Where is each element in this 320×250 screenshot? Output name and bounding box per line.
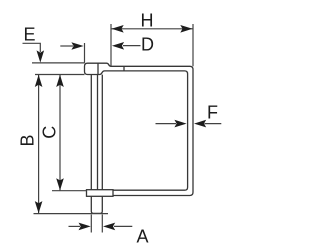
dim A right tail (114, 225, 132, 227)
dim line C (59, 75, 61, 190)
ext line H left (110, 24, 112, 66)
pin shaft (91, 75, 102, 214)
arrowhead A right(pointing left) (103, 223, 115, 231)
head left/bottom + loop inner contour (85, 63, 188, 190)
ext line V1 head left (84, 43, 86, 63)
dim A left tail (69, 225, 81, 227)
dim line H (111, 28, 193, 30)
head top + loop outer contour (88, 63, 194, 195)
arrowhead A left(pointing right) (79, 223, 91, 231)
svg-text:H: H (141, 10, 154, 30)
arrowhead D left(pointing right) (71, 42, 83, 50)
arrowhead D right(pointing left) (112, 42, 124, 50)
svg-text:E: E (24, 24, 36, 44)
ext line C (52, 190, 87, 192)
ext line bottom (B) (34, 213, 109, 215)
svg-text:F: F (207, 102, 218, 122)
svg-text:D: D (141, 35, 154, 55)
head inner line (97, 63, 99, 74)
arrowhead F right(pointing left) (194, 120, 206, 128)
pin middle line (97, 75, 99, 190)
dim E leader (23, 43, 41, 52)
arrowhead B down (35, 201, 43, 213)
dim D left tail (60, 45, 73, 47)
dim line B (38, 75, 40, 213)
arrowhead F left(pointing right) (174, 120, 186, 128)
dim F left tail (156, 123, 177, 125)
arrowhead C down (56, 178, 64, 190)
ext line head bottom (35, 74, 85, 76)
dim D right tail (123, 45, 141, 47)
arrowhead B up (35, 75, 43, 87)
ext lines A (90, 215, 92, 233)
wire flattened end (bottom, over pin) (87, 190, 114, 197)
svg-text:A: A (137, 226, 149, 246)
wire tick top bar (123, 66, 125, 71)
svg-text:C: C (40, 126, 60, 139)
ext line head top (32, 62, 85, 64)
arrowhead C up (56, 75, 64, 87)
arrowhead H left (112, 25, 124, 33)
arrowhead H right (180, 25, 192, 33)
svg-text:B: B (18, 134, 38, 146)
arrowhead E down (37, 50, 45, 62)
ext line H right (192, 24, 194, 66)
dim F right tail (205, 123, 222, 125)
